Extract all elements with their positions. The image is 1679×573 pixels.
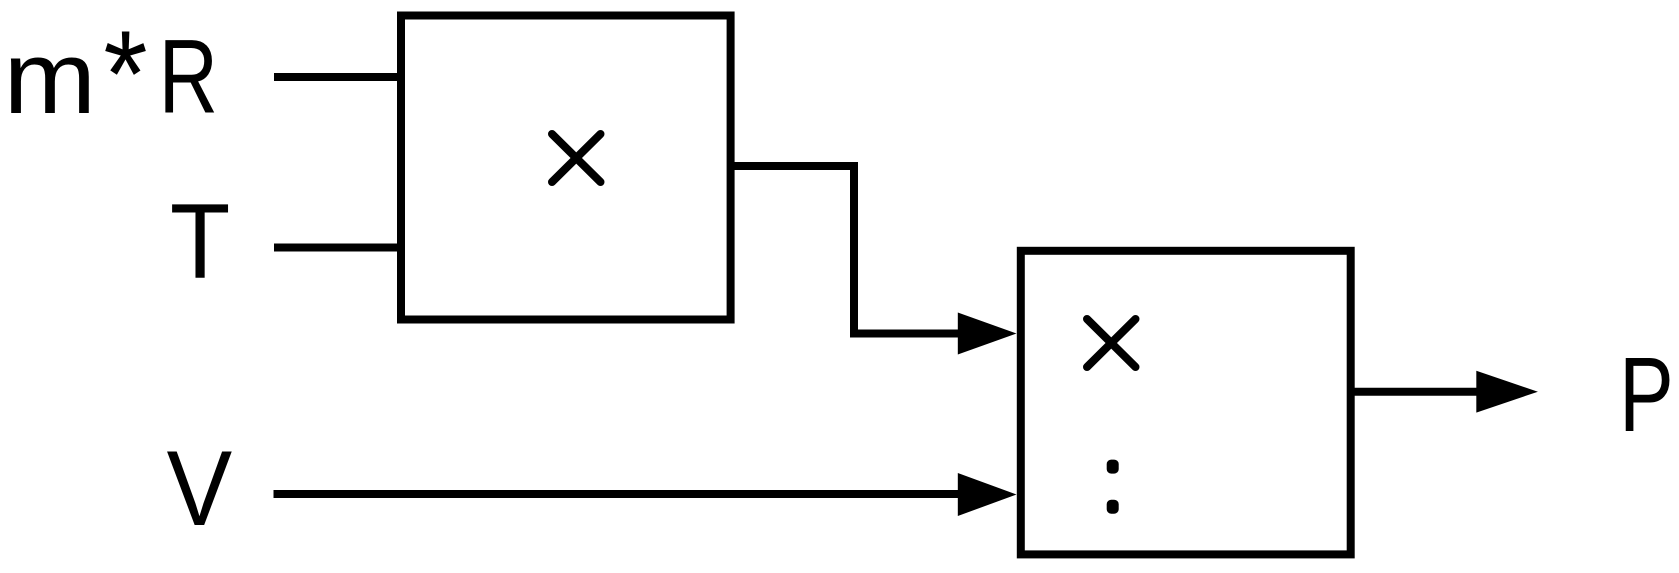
arrowhead into U2 input 2 bbox=[958, 473, 1017, 516]
multiply sign in U1 bbox=[552, 134, 601, 182]
multiply sign in U2 bbox=[1087, 319, 1136, 367]
input label m*R bbox=[4, 6, 218, 143]
wire T input bbox=[274, 244, 399, 252]
svg-text:V: V bbox=[167, 428, 233, 548]
divide block U2 bbox=[1021, 251, 1351, 555]
product block U1 bbox=[401, 16, 731, 320]
arrowhead into U2 input 1 bbox=[958, 313, 1017, 355]
wire U1 output to U2 input 1 bbox=[731, 166, 962, 334]
svg-text:P: P bbox=[1619, 336, 1674, 454]
input label V bbox=[167, 428, 233, 548]
svg-text:R: R bbox=[159, 18, 218, 136]
divide dots in U2 bbox=[1107, 460, 1119, 514]
svg-text:*: * bbox=[103, 6, 147, 143]
input label T bbox=[170, 182, 230, 301]
arrowhead to P bbox=[1476, 371, 1538, 413]
svg-text:T: T bbox=[170, 182, 230, 301]
wire U2 output bbox=[1351, 388, 1480, 396]
wire V input bbox=[274, 490, 963, 498]
wire m*R input bbox=[274, 73, 399, 81]
svg-text:m: m bbox=[4, 20, 97, 136]
output label P bbox=[1619, 336, 1674, 454]
